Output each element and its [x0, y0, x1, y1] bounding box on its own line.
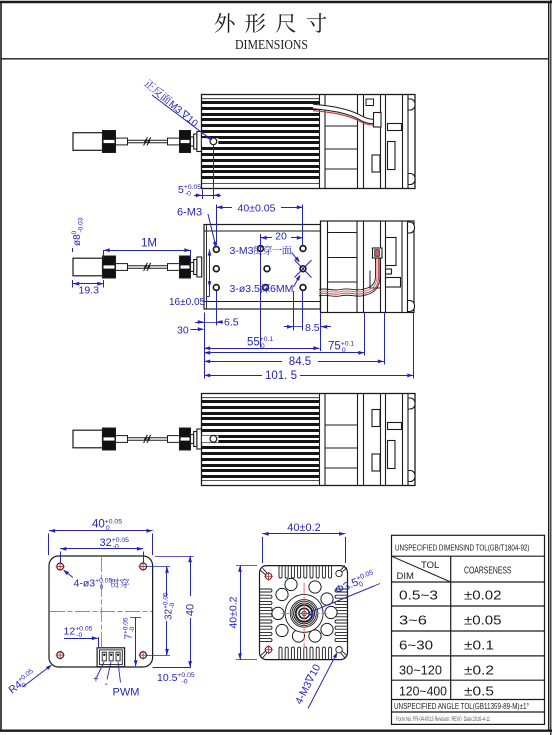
cable plug housing — [73, 258, 103, 276]
VIEW 1: top side view — [73, 95, 415, 189]
dim 40±0.05 — [216, 202, 303, 245]
wire with break symbol — [128, 263, 168, 271]
dim 30 — [177, 325, 204, 337]
wire bracket v2 — [370, 271, 381, 289]
cable ferrule left — [116, 264, 128, 271]
dim 12 +0.05/-0 — [64, 625, 99, 647]
heatsink fins — [202, 400, 320, 478]
label R4 +0.05/0 rotated — [6, 665, 52, 698]
dim 19.3 — [73, 280, 104, 297]
svg-text:-0: -0 — [169, 602, 176, 608]
VIEW 2: middle side view with mounting face — [73, 221, 415, 313]
mounting face plate — [204, 225, 321, 310]
fan detail rects — [372, 99, 415, 185]
dim 55 +0.1/0 — [204, 336, 320, 350]
svg-text:6.5: 6.5 — [224, 317, 239, 329]
red crosses on left corner holes — [264, 572, 273, 581]
dim 5 +0.05/-0 — [178, 145, 221, 199]
corner screw holes — [265, 573, 271, 579]
svg-text:0: 0 — [261, 343, 265, 350]
heatsink outline — [260, 566, 348, 660]
cable knurled connector left — [103, 131, 116, 153]
svg-text:0: 0 — [100, 584, 104, 591]
dim 101.5 — [204, 370, 414, 382]
right fan section v2 — [321, 221, 415, 313]
laser aperture lens tube — [191, 132, 202, 152]
svg-text:M3: M3 — [166, 99, 184, 117]
dim 32 +0.05/-0 right rotated — [146, 567, 176, 656]
svg-text:TOL: TOL — [421, 560, 439, 571]
svg-text:-0: -0 — [185, 191, 191, 198]
svg-text:0: 0 — [106, 525, 110, 532]
label 正反面M3(depth)10 rotated leader — [142, 78, 213, 140]
wire with break symbol — [128, 435, 168, 443]
fan rects v2 — [386, 222, 415, 312]
svg-text:84.5: 84.5 — [289, 356, 311, 368]
dim 32 +0.05/-0 top — [60, 537, 143, 563]
svg-text:-0: -0 — [182, 679, 188, 686]
dim 40±0.2 left rotated — [228, 566, 258, 660]
right end mounting tabs — [408, 99, 415, 110]
M3 side hole boss — [202, 138, 219, 145]
fan wire bundle — [313, 107, 374, 122]
dim 40 +0.05/0 top — [49, 518, 153, 555]
svg-text:±0.02: ±0.02 — [464, 588, 502, 603]
svg-text:-0.03: -0.03 — [78, 217, 85, 232]
label 4-M3 depth 10 rotated — [293, 652, 338, 709]
dim 7 +0.05/-0 rotated — [123, 617, 142, 666]
aperture lens tube v2 — [191, 257, 202, 277]
HEATSINK FRONT VIEW — [228, 522, 381, 709]
dim 8.5 — [284, 322, 331, 334]
cable ferrule right — [168, 138, 180, 145]
VIEW 3: bottom side view — [73, 394, 415, 486]
plate outline — [49, 556, 153, 667]
cable knurled connector right — [180, 256, 191, 278]
cable knurled connector left — [103, 256, 116, 278]
center lens assembly — [285, 594, 323, 632]
svg-text:PWM: PWM — [113, 687, 140, 699]
svg-text:16±0.05: 16±0.05 — [169, 297, 206, 308]
right end mounting tabs — [408, 398, 415, 409]
fin teeth top/bottom — [260, 566, 348, 660]
cable ferrule right — [168, 264, 180, 271]
module body outline — [202, 394, 416, 486]
fan housing cross braces — [325, 424, 358, 426]
wire connector v2 — [373, 248, 383, 258]
cable ferrule left — [116, 138, 128, 145]
label 4-ø3 +0.05/0 through — [63, 570, 129, 591]
svg-text:DIMENSIONS: DIMENSIONS — [235, 37, 308, 52]
dim 10.5 +0.05/-0 — [153, 668, 195, 686]
dim 16±0.05 — [169, 249, 211, 308]
cable knurled connector right — [180, 131, 191, 153]
pin connector — [97, 648, 125, 667]
fan housing vertical bars — [320, 394, 409, 486]
cable ferrule left — [116, 436, 128, 443]
label 3-Ø3.5 depth 6MM — [230, 275, 301, 296]
svg-text:101. 5: 101. 5 — [265, 370, 297, 382]
svg-text:-: - — [105, 679, 108, 690]
svg-text:8.5: 8.5 — [305, 322, 320, 334]
svg-text:6MM: 6MM — [270, 283, 293, 295]
fan housing vertical bars — [320, 95, 409, 189]
fin teeth left/right — [260, 589, 273, 592]
laser aperture lens tube — [191, 429, 202, 449]
svg-text:±0.2: ±0.2 — [464, 663, 494, 678]
svg-text:±0.05: ±0.05 — [464, 613, 502, 628]
svg-text:Form No: FR-04-0013 Revision:: Form No: FR-04-0013 Revision: REV0 Date:… — [396, 716, 490, 723]
svg-text:10.5+0.05: 10.5+0.05 — [157, 672, 195, 684]
svg-text:6~30: 6~30 — [399, 638, 433, 653]
svg-text:3-M3: 3-M3 — [230, 245, 254, 257]
PLATE VIEW: front of mounting plate — [6, 518, 196, 698]
label Ø3.5 +0.05/0 — [308, 569, 381, 617]
heatsink fins — [202, 101, 320, 179]
M3 side hole boss — [202, 436, 219, 443]
svg-text:3-ø3.5: 3-ø3.5 — [230, 283, 261, 295]
cable knurled connector left — [103, 428, 116, 450]
fan connector recess — [372, 410, 380, 427]
red strands v2 — [319, 258, 377, 292]
svg-text:UNSPECIFIED ANGLE TOL(GB11359-: UNSPECIFIED ANGLE TOL(GB11359-89-M)±1° — [394, 702, 529, 711]
svg-text:40±0.2: 40±0.2 — [287, 522, 321, 534]
label 3-M3 through one face — [230, 245, 301, 263]
svg-text:19.3: 19.3 — [79, 285, 100, 297]
wire with break symbol — [128, 137, 168, 145]
svg-text:0.5~3: 0.5~3 — [399, 588, 438, 603]
svg-text:30: 30 — [177, 325, 189, 337]
dim 40 right rotated — [155, 556, 197, 667]
X mark on counterbored hole — [295, 260, 312, 278]
cable knurled connector right — [180, 428, 191, 450]
dim 40±0.2 top — [263, 522, 346, 563]
fan housing cross braces — [325, 125, 358, 127]
svg-text:120~400: 120~400 — [399, 684, 447, 699]
svg-text:6-M3: 6-M3 — [177, 207, 202, 219]
svg-text:20: 20 — [275, 231, 287, 243]
fan wire red strand — [313, 111, 377, 126]
svg-text:10: 10 — [184, 114, 200, 130]
pin leader + — [97, 662, 121, 683]
title 外形尺寸 — [215, 13, 235, 33]
svg-text:40: 40 — [185, 604, 197, 616]
cable ferrule right — [168, 436, 180, 443]
svg-text:40±0.05: 40±0.05 — [238, 202, 276, 214]
corner holes with red crosses — [57, 563, 64, 570]
svg-text:-0: -0 — [113, 544, 119, 551]
svg-text:3~6: 3~6 — [399, 613, 427, 628]
svg-text:DIM: DIM — [397, 571, 415, 582]
svg-text:0: 0 — [342, 347, 346, 354]
svg-text:+: + — [93, 675, 99, 686]
red centerlines — [101, 557, 103, 666]
fan wire bundle v2 — [319, 258, 376, 290]
fan wire connector — [366, 99, 374, 106]
dim 84.5 — [204, 356, 384, 368]
dim 20 — [261, 231, 304, 245]
dim 1M — [104, 238, 191, 258]
dim Ø8 0/-0.03 — [71, 217, 85, 252]
svg-text:30~120: 30~120 — [399, 663, 442, 678]
cable plug housing — [73, 133, 103, 151]
fan detail rects — [372, 398, 415, 482]
svg-text:±0.5: ±0.5 — [464, 684, 494, 699]
mounting holes — [213, 247, 219, 253]
svg-text:40±0.2: 40±0.2 — [228, 596, 240, 628]
svg-text:1M: 1M — [141, 238, 157, 250]
vent circles ring — [285, 578, 297, 590]
svg-text:-0: -0 — [76, 632, 82, 639]
svg-text:-0: -0 — [129, 626, 136, 632]
red crosshair — [282, 583, 328, 649]
svg-text:UNSPECIFIED DIMENSIND TOL(GB/T: UNSPECIFIED DIMENSIND TOL(GB/T1804-92) — [395, 543, 530, 553]
TOLERANCE TABLE — [392, 535, 545, 724]
cable plug housing — [73, 430, 103, 448]
bottom dimension chain extension lines — [205, 234, 414, 379]
svg-text:±0.1: ±0.1 — [464, 638, 494, 653]
dim 6.5 — [195, 317, 239, 329]
svg-text:COARSENESS: COARSENESS — [464, 566, 512, 577]
module body outline — [202, 95, 416, 189]
dim 75 +0.1/0 — [204, 340, 365, 354]
